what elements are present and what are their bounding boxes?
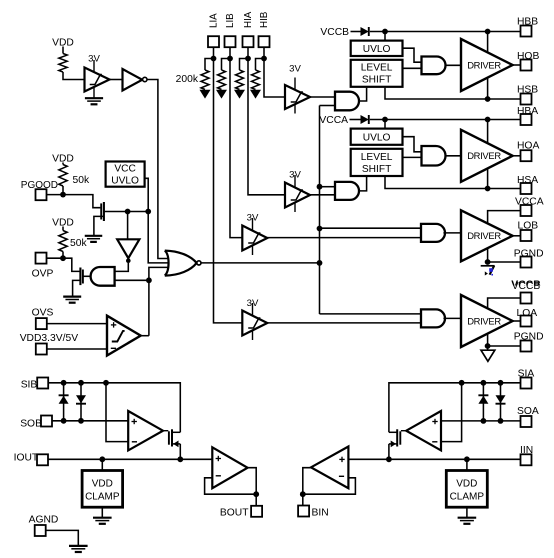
pin LOB label [518, 221, 539, 232]
node HIB pulldown tap [261, 56, 267, 62]
svg-text:DRIVER: DRIVER [467, 59, 501, 70]
wire IIN line [348, 458, 520, 460]
pin PGND [521, 257, 532, 268]
pin LIB [225, 36, 236, 47]
svg-text:LIA: LIA [209, 13, 220, 28]
pin PGND2 label [514, 332, 544, 343]
pin VDD3.3V/5V [36, 344, 47, 355]
svg-text:HIB: HIB [259, 11, 270, 28]
wire VDD to R2 [62, 163, 64, 165]
ground (Q1) [85, 236, 103, 242]
svg-text:3V: 3V [247, 213, 259, 224]
node BIN feedback junction [300, 491, 306, 497]
pin IOUT [37, 454, 48, 465]
node SIA feedback tap [459, 380, 465, 386]
wire DRIVER3 out to LOB [513, 235, 521, 237]
svg-text:DRIVER: DRIVER [467, 150, 501, 161]
wire LEVEL SHIFT1 to HSB [385, 88, 521, 99]
resistor 200k (HIB) [252, 70, 260, 90]
wire VCCA pin to DRIVER3 top [488, 211, 521, 225]
svg-text:CLAMP: CLAMP [450, 491, 485, 502]
ground (Q2) [63, 297, 81, 303]
wire PGOOD to Q1 gate [47, 195, 101, 208]
svg-text:BIN: BIN [312, 507, 329, 518]
op-amp U17 (BIN, pointing left) [311, 447, 348, 489]
wire to PGND pin [488, 261, 521, 263]
pin HOA label [517, 141, 539, 152]
wire U6 to AND6 [266, 322, 421, 324]
node SOA diode D [498, 418, 504, 424]
svg-text:DRIVER: DRIVER [467, 315, 501, 326]
diode D5 (up) [478, 395, 488, 404]
svg-text:OVS: OVS [32, 308, 54, 319]
driver U9 (DRIVER) [461, 130, 513, 182]
node HSA driver junction [485, 186, 491, 192]
wire DRIVER4 bottom to PGND2 [487, 334, 489, 351]
wire U15 output [248, 468, 257, 506]
pin BOUT label [220, 507, 249, 518]
node IIN sense tap [386, 456, 392, 462]
pin HOA [521, 150, 532, 161]
and gate AND3 [422, 57, 446, 75]
wire SIA line [389, 383, 521, 433]
wire Q3 to IOUT line [179, 444, 181, 459]
wire node to inverter U12 [127, 212, 129, 240]
pin PGND2 [521, 341, 532, 352]
schmitt buffer U3 3V (HIB) [285, 64, 310, 114]
svg-text:VDD: VDD [456, 478, 477, 489]
driver U10 (DRIVER) [461, 210, 513, 261]
node VCCA-UVLO junction [382, 117, 388, 123]
power label VDD (PGOOD) [52, 153, 74, 164]
node HBA junction [485, 117, 491, 123]
and gate AND7 (pointing left) [91, 267, 115, 286]
supply label VCCA [319, 115, 348, 126]
and gate AND1 [335, 92, 359, 111]
driver U8 (DRIVER) [461, 39, 513, 91]
node SIB diode B tap [78, 380, 84, 386]
wire AND7 input 2 to fault node [115, 279, 149, 281]
pin VCCA label [515, 197, 544, 208]
node enable bus junction [317, 260, 323, 266]
pin VCCB label (blue artifact) [511, 279, 541, 292]
node HBB junction [485, 29, 491, 35]
wire U17 feedback [303, 478, 356, 494]
pin HSB [521, 94, 532, 105]
pulldown arrow (LIA) [200, 90, 211, 99]
wire junction to UVLO1 [384, 32, 386, 41]
node bus tap AND5 [317, 226, 323, 232]
wire SIB to op-amp inverting input [106, 383, 128, 442]
wire comparator output to OR gate input 3 [149, 267, 169, 335]
node IIN clamp tap [464, 456, 470, 462]
box VDD CLAMP 1 [82, 471, 123, 508]
wire bus to AND5 input [320, 227, 422, 229]
pin HBB [521, 26, 532, 37]
and gate AND4 [422, 146, 446, 166]
wire U12 output to AND7 input 1 [115, 263, 129, 272]
node SIB diode A tap [61, 380, 67, 386]
svg-text:DRIVER: DRIVER [467, 230, 501, 241]
pin AGND label [29, 514, 59, 525]
wire Q2 gate from AND7 [84, 275, 92, 277]
op-amp U16 (SOA, pointing left) [406, 411, 441, 450]
resistor 200k (LIA) [201, 70, 209, 90]
resistor R2 50k [59, 165, 67, 187]
wire U5 to AND5 [267, 237, 421, 239]
or gate U7 [165, 251, 201, 276]
pin LIA label [209, 13, 220, 28]
wire bus to AND1 input [320, 105, 336, 107]
pin HIA [243, 36, 254, 47]
wire OVS to comparator [47, 323, 107, 325]
wire D2 to HBA pin [370, 119, 521, 121]
wire VDD to R3 [62, 227, 64, 231]
node VCCB-UVLO junction [382, 29, 388, 35]
pin PGND label [514, 248, 544, 259]
wire DRIVER4 out to LOA [513, 320, 521, 322]
artifact ground mark (below PGND junction) [481, 262, 495, 276]
node SOB diode B [78, 418, 84, 424]
wire AGND to ground [46, 530, 79, 545]
pin HSA label [517, 175, 538, 186]
wire UVLO1 to AND3 [403, 48, 422, 62]
wire D1 to HBB pin [370, 31, 521, 33]
svg-text:VCCA: VCCA [319, 115, 348, 126]
label 50k (R3) [70, 238, 87, 249]
svg-text:50k: 50k [70, 238, 87, 249]
node PGND2 junction [485, 343, 491, 349]
transistor Q3 (sense) [163, 429, 180, 447]
wire to PGND2 pin [488, 345, 521, 347]
pin HIB [259, 36, 270, 47]
diode D2 (VCCA bootstrap) [361, 115, 369, 124]
box UVLO1 [351, 41, 403, 56]
supply label VCCB [320, 27, 349, 38]
wire junction to UVLO2 [384, 120, 386, 129]
pin SIA [521, 378, 532, 389]
wire OR output to enable bus [201, 262, 320, 264]
wire VDD CLAMP 1 to ground [101, 507, 103, 517]
node BOUT feedback junction [253, 491, 259, 497]
wire UVLO2 to AND4 [403, 137, 422, 152]
node IOUT sense tap [177, 456, 183, 462]
svg-text:AGND: AGND [29, 514, 59, 525]
pin SOA label [517, 406, 539, 417]
and gate AND2 [335, 182, 359, 200]
svg-text:UVLO: UVLO [111, 175, 139, 186]
wire VDD to R1 [62, 47, 64, 54]
wire bus to AND2 input [320, 186, 336, 188]
box UVLO2 [351, 129, 403, 145]
node PGND junction [485, 259, 491, 265]
wire comparator output [141, 335, 149, 337]
resistor 200k (LIB) [218, 70, 226, 90]
node LIB pulldown tap [227, 56, 233, 62]
wire HBA to DRIVER2 top [487, 120, 489, 144]
wire SOA line to op-amp [441, 420, 521, 422]
op-amp U15 (BOUT) [212, 447, 247, 488]
wire HIB vertical [264, 47, 286, 97]
driver U11 (DRIVER) [461, 295, 513, 347]
svg-text:UVLO: UVLO [363, 44, 391, 55]
pin VCCB [521, 293, 532, 304]
pin HOB label [517, 51, 539, 62]
pin OVP [36, 253, 47, 264]
pulldown arrow (LIB) [216, 90, 227, 99]
svg-text:3V: 3V [289, 64, 301, 75]
wire U17 output [303, 468, 311, 506]
pin PGOOD label [21, 180, 58, 191]
box VCC UVLO [106, 162, 145, 187]
pin SOA [521, 416, 532, 427]
node HIA pulldown tap [245, 56, 251, 62]
wire HIB to pulldown resistor [256, 59, 265, 71]
pin SOB [41, 416, 52, 427]
and gate AND5 [421, 224, 445, 242]
wire HBB to DRIVER1 top [487, 32, 489, 53]
label 200k [176, 74, 199, 85]
svg-text:CLAMP: CLAMP [85, 491, 120, 502]
wire VCCA to diode D2 [350, 119, 361, 121]
box LEVEL SHIFT 1 [351, 60, 403, 87]
wire VCCB pin to DRIVER4 top [488, 298, 521, 308]
svg-text:200k: 200k [176, 74, 199, 85]
node inverter tap [125, 209, 131, 215]
wire LIA to pulldown resistor [205, 59, 214, 71]
wire R2 to PGOOD node [62, 186, 64, 195]
pin HOB [521, 60, 532, 71]
wire VDD CLAMP 2 to ground [466, 507, 468, 517]
pin OVP label [32, 269, 54, 280]
wire DRIVER2 bottom to HSA [487, 168, 489, 188]
wire AND5 to DRIVER3 [443, 232, 461, 234]
pin HBA [521, 114, 532, 125]
node SIA diode C tap [481, 380, 487, 386]
svg-text:VCC: VCC [114, 164, 136, 175]
svg-text:UVLO: UVLO [363, 133, 391, 144]
resistor R1 [59, 54, 67, 73]
svg-text:VDD3.3V/5V: VDD3.3V/5V [20, 333, 79, 344]
wire SIA to op-amp inverting input [441, 383, 462, 442]
pin HIB label [259, 11, 270, 28]
wire LEVEL SHIFT2 to AND4 [403, 156, 422, 158]
comparator U13 (OVS) [107, 316, 141, 356]
node SIB feedback tap [103, 380, 109, 386]
pin VCCA [521, 205, 532, 216]
wire U4 to AND2 [310, 194, 335, 196]
wire SIB line [48, 383, 180, 433]
pin HSA [521, 183, 532, 194]
wire U2 output to OR gate input 1 [147, 80, 169, 259]
diode D1 (VCCB bootstrap) [361, 27, 369, 36]
box VDD CLAMP 2 [446, 471, 487, 508]
schmitt buffer U5 3V (LIB) [242, 213, 267, 256]
wire AND1 to LEVEL SHIFT1 [358, 88, 366, 101]
pin IIN label [520, 445, 533, 456]
power label VDD (top) [52, 37, 74, 48]
node SOB diode A [61, 418, 67, 424]
svg-text:3V: 3V [247, 298, 259, 309]
svg-text:SHIFT: SHIFT [362, 75, 391, 86]
pin HBA label [517, 106, 538, 117]
pin AGND [35, 525, 46, 536]
pulldown arrow (HIA) [234, 90, 245, 99]
ground (signal, below DRIVER4) [481, 350, 495, 361]
pin IIN [521, 454, 532, 465]
wire DRIVER1 bottom to HSB [487, 78, 489, 100]
node bus tap AND2 [317, 184, 323, 190]
diode D3 (up) [59, 395, 69, 404]
ground (VDD CLAMP 2) [458, 518, 477, 524]
pin HBB label [517, 16, 538, 27]
ground (AGND) [69, 546, 88, 552]
pin HSB label [517, 84, 538, 95]
pin OVS [36, 318, 47, 329]
pin SIB label [21, 380, 38, 391]
transistor Q1 (PGOOD pulldown) [101, 202, 104, 221]
wire DRIVER1 out to HOB [513, 64, 521, 66]
pin IOUT label [14, 453, 39, 464]
resistor 200k (HIA) [236, 70, 244, 90]
node SIA diode D tap [498, 380, 504, 386]
svg-text:OVP: OVP [32, 269, 54, 280]
wire to VDD CLAMP 2 [466, 459, 468, 470]
transistor Q4 (sense) [389, 429, 406, 447]
svg-text:SHIFT: SHIFT [362, 164, 391, 175]
svg-text:3V: 3V [88, 54, 100, 65]
wire VCCB to diode D1 [351, 31, 361, 33]
pin BOUT [251, 506, 262, 517]
svg-text:IOUT: IOUT [14, 453, 39, 464]
wire U15 feedback [205, 478, 257, 494]
inverter U2 [123, 69, 148, 91]
node comparator output junction [146, 277, 152, 283]
pin PGOOD [36, 189, 47, 200]
wire OVP to Q2 drain [47, 258, 80, 271]
resistor R3 50k [59, 231, 67, 252]
wire Q1 drain [105, 211, 149, 213]
wire to VDD CLAMP 1 [101, 459, 103, 470]
svg-text:SOB: SOB [20, 418, 42, 429]
wire bus to AND6 input [320, 313, 422, 315]
wire LIB vertical [230, 47, 243, 237]
node OVP pullup junction [60, 255, 66, 261]
wire DRIVER3 bottom to PGND [487, 248, 489, 262]
svg-text:HIA: HIA [243, 11, 254, 28]
svg-text:VCCB: VCCB [320, 27, 349, 38]
svg-text:LEVEL: LEVEL [361, 63, 393, 74]
wire AND3 to DRIVER1 [445, 64, 462, 66]
pin SIB [37, 378, 48, 389]
pin SOB label [20, 418, 42, 429]
box LEVEL SHIFT 2 [351, 149, 403, 176]
schmitt buffer U6 3V (LIA) [242, 298, 267, 340]
wire IOUT line [48, 458, 212, 460]
wire R3 to OVP node [62, 252, 64, 259]
node HSB driver junction [485, 96, 491, 102]
wire AND6 to DRIVER4 [443, 317, 461, 319]
wire LIB to pulldown resistor [222, 59, 231, 71]
svg-text:LEVEL: LEVEL [361, 152, 393, 163]
svg-text:LIB: LIB [225, 13, 236, 28]
wire diode C vertical [482, 383, 484, 421]
schmitt buffer U1 3V [85, 54, 110, 99]
wire DRIVER2 out to HOA [513, 155, 521, 157]
wire HIA vertical [248, 47, 286, 195]
pulldown arrow (HIB) [250, 90, 261, 99]
node PGOOD pullup junction [60, 192, 66, 198]
pin LOA label [517, 308, 538, 319]
wire LIA vertical [214, 47, 244, 323]
wire R1 to buffer U1 input [63, 72, 85, 80]
wire VCC UVLO output to OR gate input 2 [145, 178, 169, 263]
svg-text:BOUT: BOUT [220, 507, 249, 518]
pin LOA [521, 316, 532, 327]
pin BIN label [312, 507, 329, 518]
wire diode A vertical [63, 383, 65, 421]
svg-text:VCCB: VCCB [512, 281, 541, 292]
svg-text:SIB: SIB [21, 380, 38, 391]
ground (below U1) [85, 98, 103, 104]
pin LOB [521, 230, 532, 241]
diode D4 (down) [76, 395, 86, 404]
wire U1 to inverter U2 [110, 79, 124, 81]
and gate AND6 [421, 309, 445, 327]
op-amp U14 (SOB) [128, 411, 163, 450]
schmitt buffer U4 3V (HIA) [285, 170, 310, 213]
label 50k (R2) [73, 175, 90, 186]
node LIA pulldown tap [211, 56, 217, 62]
pin SIA label [518, 369, 535, 380]
pin VDD3.3V/5V label [20, 333, 79, 344]
wire Q4 to IIN line [388, 444, 390, 459]
transistor Q2 (OVP) [80, 268, 83, 286]
wire U3 to AND1 [310, 96, 335, 98]
pin HIA label [243, 11, 254, 28]
node IOUT clamp tap [99, 456, 105, 462]
node fault bus junction (drain) [145, 209, 151, 215]
wire AND4 to DRIVER2 [445, 155, 462, 157]
wire diode B vertical [80, 383, 82, 421]
wire Q2 source to ground [73, 280, 81, 295]
pin OVS label [32, 308, 54, 319]
wire Q1 source to ground [94, 216, 105, 235]
wire LEVEL SHIFT2 to HSA [385, 177, 521, 189]
pin LIB label [225, 13, 236, 28]
wire AND2 to LEVEL SHIFT2 [358, 177, 366, 191]
pin LIA [208, 36, 219, 47]
svg-text:50k: 50k [73, 175, 90, 186]
power label VDD (OVP) [52, 218, 74, 229]
svg-text:VDD: VDD [92, 478, 113, 489]
wire enable bus vertical [319, 106, 321, 315]
pin BIN [298, 506, 309, 517]
wire diode D vertical [500, 383, 502, 421]
wire LEVEL SHIFT1 to AND3 [403, 67, 422, 69]
svg-text:3V: 3V [289, 170, 301, 181]
wire SOB line to op-amp [52, 420, 128, 422]
inverter U12 (pointing down) [117, 239, 139, 263]
ground (VDD CLAMP 1) [93, 518, 112, 524]
node SOA diode C [481, 418, 487, 424]
diode D6 (down) [496, 395, 506, 404]
wire VDD3.3V/5V to comparator [47, 348, 107, 350]
wire HIA to pulldown resistor [240, 59, 249, 71]
